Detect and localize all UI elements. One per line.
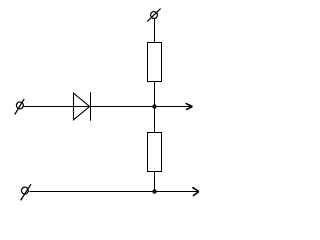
terminal P2 (middle left) [15,99,25,115]
wire bottom horizontal (P3 to arrow) [29,191,198,193]
resistor R2 [148,133,162,172]
output arrow (middle wire end) [186,103,193,109]
terminal P1 (top) [147,9,160,22]
node B (bottom junction dot) [152,189,156,193]
wire P1 to R1 [154,18,156,42]
wire node A to R2 [154,107,156,133]
diode D1 [74,92,91,121]
node A (middle junction dot) [152,104,156,108]
wire R2 to node B [154,172,156,192]
resistor R1 [148,43,162,82]
wire R1 to node A [154,82,156,107]
terminal P3 (bottom left) [21,184,31,200]
output arrow (bottom wire end) [192,187,199,196]
wire middle horizontal (P2 through D1 to arrow) [23,106,193,108]
